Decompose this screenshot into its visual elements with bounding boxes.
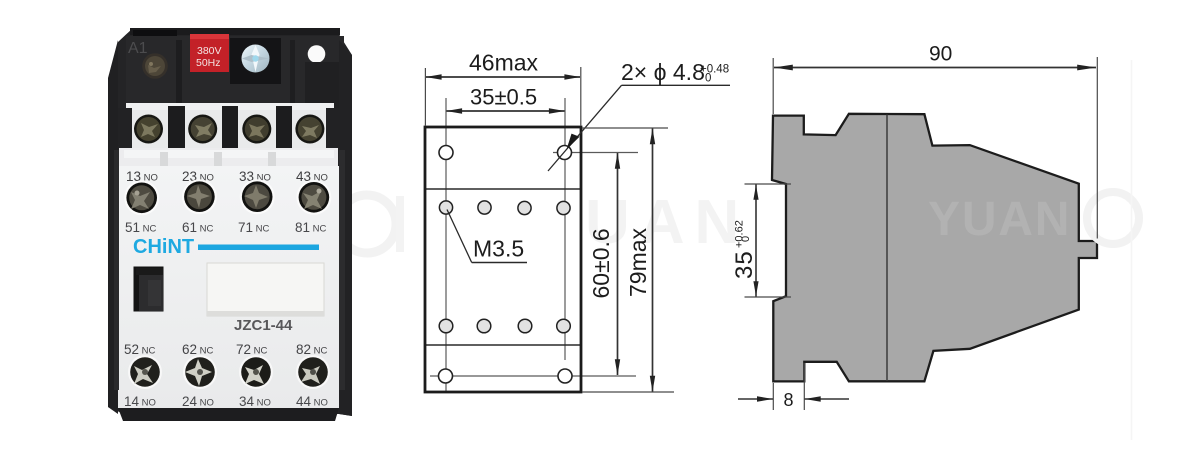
svg-text:35: 35 bbox=[731, 250, 758, 279]
labels row 52NC bbox=[124, 342, 328, 357]
body rect fill bbox=[425, 127, 581, 392]
label 35 +0.62/0 rotated bbox=[731, 220, 758, 279]
dim line 79max bbox=[652, 129, 654, 392]
row1 screw 4 bbox=[295, 115, 324, 144]
svg-text:50Hz: 50Hz bbox=[196, 57, 221, 69]
leader 2x phi4.8 bbox=[622, 84, 731, 86]
hole top-left bbox=[439, 146, 453, 160]
left rail dark bbox=[108, 40, 118, 414]
white hole bbox=[308, 45, 326, 63]
ext line 79 bottom bbox=[582, 391, 674, 393]
dim line 46max bbox=[426, 76, 580, 78]
watermark YUAN on gray bbox=[928, 193, 1071, 246]
ext line 35 bottom bbox=[745, 296, 792, 298]
product photo: CHINT JZC1-44 contactor bbox=[108, 28, 352, 421]
row1 screw 2 bbox=[188, 115, 217, 144]
svg-text:A1: A1 bbox=[128, 40, 148, 57]
svg-text:380V: 380V bbox=[197, 45, 222, 57]
watermark faint right bbox=[1087, 192, 1139, 244]
ext line 90 right bbox=[1096, 57, 1098, 239]
divider line upper bbox=[425, 188, 581, 190]
ext line 79 top bbox=[582, 127, 668, 129]
watermark ghosts on white background bbox=[338, 188, 749, 257]
crosshair horizontal top-right hole bbox=[553, 152, 638, 154]
hole top-right (phi 4.8) bbox=[558, 146, 572, 160]
leader M3.5 bbox=[472, 262, 527, 264]
dim line 90 bbox=[774, 67, 1096, 69]
top dark ribs bbox=[176, 40, 182, 110]
main white face bbox=[118, 166, 339, 408]
silver screw bbox=[242, 45, 270, 73]
outer rect border bbox=[425, 127, 581, 392]
white band row1 bbox=[126, 103, 334, 112]
svg-text:+0.62: +0.62 bbox=[734, 220, 746, 248]
side profile gray body bbox=[772, 114, 1097, 382]
svg-text:79max: 79max bbox=[625, 227, 651, 297]
white strip under row1 bbox=[119, 148, 338, 168]
centerline horizontal bottom holes bbox=[430, 375, 636, 377]
photo body base dark bbox=[108, 28, 352, 416]
labels row 13NO bbox=[126, 169, 328, 184]
internal division line bbox=[886, 115, 888, 382]
svg-text:8: 8 bbox=[784, 390, 794, 410]
bottom dark strip bbox=[118, 408, 339, 421]
front view drawing bbox=[425, 50, 730, 393]
row1 separators dark bbox=[118, 108, 132, 152]
centerline vertical left col bbox=[445, 98, 447, 391]
svg-text:60±0.6: 60±0.6 bbox=[588, 228, 614, 298]
black button bbox=[134, 267, 164, 312]
ext line 46 left bbox=[424, 68, 426, 126]
svg-text:M3.5: M3.5 bbox=[473, 236, 524, 262]
top block shading bbox=[130, 28, 340, 35]
screw housing dark bbox=[230, 38, 281, 84]
labels row 14NO bbox=[124, 394, 328, 409]
svg-text:35±0.5: 35±0.5 bbox=[470, 85, 537, 110]
svg-text:2× ϕ 4.8: 2× ϕ 4.8 bbox=[621, 59, 705, 85]
dim 8 arrows bbox=[738, 398, 773, 400]
dim line 60±0.6 bbox=[617, 153, 619, 375]
bottom holes bbox=[439, 369, 453, 383]
svg-text:JZC1-44: JZC1-44 bbox=[234, 317, 293, 334]
row3 holes bbox=[439, 319, 453, 333]
divider line lower bbox=[425, 344, 581, 346]
dim line 35±0.5 bbox=[447, 110, 565, 112]
right rail dark bbox=[339, 40, 352, 416]
row1 screw 1 bbox=[134, 115, 163, 144]
svg-text:0: 0 bbox=[705, 73, 711, 85]
white label plate bbox=[207, 263, 324, 316]
red label 380V 50Hz bbox=[190, 34, 229, 72]
ext line 8 left bbox=[772, 383, 774, 410]
svg-text:YUAN: YUAN bbox=[928, 193, 1071, 246]
row1 screw 3 bbox=[242, 115, 271, 144]
screw row bottom (silver phillips) bbox=[128, 355, 330, 389]
blue line bbox=[198, 245, 319, 251]
dim line 35 bbox=[755, 185, 757, 297]
svg-text:0: 0 bbox=[740, 236, 752, 242]
centerline vertical right col bbox=[564, 98, 566, 360]
svg-text:CHiNT: CHiNT bbox=[133, 236, 194, 258]
row2 holes M3.5 bbox=[439, 201, 452, 214]
svg-text:90: 90 bbox=[929, 43, 952, 66]
brass screw bbox=[142, 53, 168, 79]
ext line 35 top bbox=[745, 183, 792, 185]
svg-text:46max: 46max bbox=[469, 50, 539, 76]
ext line 8 right bbox=[803, 363, 805, 410]
ext line 90 left bbox=[772, 58, 774, 114]
screw row2 (dark phillips) bbox=[124, 179, 331, 215]
side view drawing bbox=[731, 43, 1139, 441]
labels row 51NC bbox=[125, 220, 327, 235]
ext line 46 right bbox=[580, 67, 582, 126]
